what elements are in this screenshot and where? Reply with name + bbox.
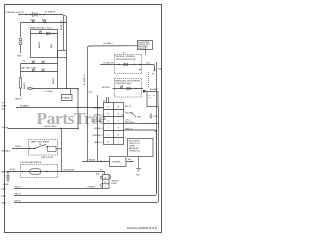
connector table [104,103,124,145]
wire A+BA(M) [16,107,104,109]
svg-text:GRN14: GRN14 [15,146,21,148]
wire bus right drop [77,89,79,129]
ground lug left [6,172,9,182]
svg-text:+GRN(M)+1: +GRN(M)+1 [93,107,103,109]
wire left drop lower [20,45,22,53]
svg-text:BLK14: BLK14 [10,169,15,171]
svg-text:A: A [105,176,107,179]
diode D4 [127,87,131,90]
plug cells [103,179,110,184]
node LT [60,128,61,129]
wire light switch row [113,88,144,90]
ground sym right [149,113,152,118]
box trailer [62,95,73,101]
wire fuse left [82,161,110,163]
node switch right [46,146,47,147]
ground G2 [136,157,141,172]
svg-text:CONNECTED: CONNECTED [129,151,140,153]
wire drop to trailer [70,89,72,95]
svg-text:GND(A)◄: GND(A)◄ [2,150,11,153]
svg-text:A: A [118,105,120,108]
wire into switch [12,148,35,150]
svg-text:S-NOTE 2: S-NOTE 2 [138,48,145,50]
svg-text:L: L [108,134,110,136]
svg-text:HEADLIGHT TAIL + PILOT: HEADLIGHT TAIL + PILOT [31,26,53,29]
svg-text:GRN14 GRN14: GRN14 GRN14 [44,126,56,128]
node bus bottom [66,88,67,89]
wire switch out [56,148,62,150]
svg-text:BLACK: BLACK [38,41,41,48]
svg-text:P4: P4 [152,74,154,76]
svg-text:BLK/WHT: BLK/WHT [150,89,159,91]
svg-text:SAFETY SW + BRAKE: SAFETY SW + BRAKE [31,141,50,144]
node r2 [46,171,47,172]
wire line2 [14,130,157,196]
svg-text:B+ WIRE 10: B+ WIRE 10 [84,75,86,85]
node ig4 [139,69,140,70]
svg-text:(M)◄: (M)◄ [2,202,7,205]
wire W1b parallel [64,15,66,50]
wire line3 [14,107,159,203]
svg-text:+YEL/BLK+: +YEL/BLK+ [87,186,96,188]
P4 module dashes [149,96,155,98]
svg-text:B WIRING ◄ PL B+: B WIRING ◄ PL B+ [6,11,25,14]
svg-text:C: C [118,120,120,122]
svg-text:F: F [108,106,110,108]
connector end symbol [28,87,32,90]
svg-text:BLK 10: BLK 10 [125,106,131,108]
svg-text:R.BAT(M)+1: R.BAT(M)+1 [93,120,103,123]
arrow left [16,107,18,109]
svg-text:B+PWR+TB: B+PWR+TB [104,62,115,64]
big rect R2 left and top [88,46,138,162]
svg-text:G: G [118,127,120,129]
lamp L7 [41,68,44,72]
wire LT row [8,128,79,130]
node bus cross [77,88,78,89]
svg-text:GRN 14+: GRN 14+ [125,128,133,130]
svg-text:LT(M)◄: LT(M)◄ [2,126,9,129]
svg-text:BLK: BLK [128,159,132,161]
svg-text:(M)◄: (M)◄ [2,195,7,198]
arrow into P4 box [143,90,147,93]
svg-text:P5: P5 [2,103,4,105]
box note lower [128,139,154,157]
svg-text:B-LT: B-LT [2,109,7,111]
wire stub B+ to box [145,46,147,55]
wire line1 [14,188,103,190]
svg-text:A HYDROSTAT: A HYDROSTAT [138,41,149,44]
svg-text:(M)◄: (M)◄ [2,188,7,191]
svg-text:P2: P2 [123,52,125,54]
node after D1 [39,14,40,15]
wire right vertical [156,62,158,193]
box safety switch dashed [29,140,58,156]
svg-text:™: ™ [121,114,125,118]
wire drop from LT row [61,129,63,172]
svg-text:A.BAT: A.BAT [2,105,8,108]
lamp L6 [32,68,35,72]
svg-text:BLACK: BLACK [23,82,26,89]
svg-text:IGNITION MODULE(S): IGNITION MODULE(S) [116,59,136,61]
lamp L5 [41,60,44,64]
svg-text:H: H [118,134,120,136]
svg-text:P+ PL(M) 1: P+ PL(M) 1 [44,91,53,93]
svg-text:TRACTOR SW: TRACTOR SW [41,156,53,159]
wire below resistor [20,88,22,97]
svg-text:B+ WIRE +: B+ WIRE + [104,43,114,45]
svg-text:E: E [108,113,110,115]
fuse inner [31,171,40,173]
svg-text:WHT/BLK: WHT/BLK [102,87,111,89]
svg-text:GROUND(M): GROUND(M) [63,169,75,171]
svg-text:T.AT P.AT SEAT SWITCH: T.AT P.AT SEAT SWITCH [20,161,42,164]
wire horizontal mid [32,88,78,90]
wire taillight row1 [21,63,58,65]
wire row4 to right [124,123,139,125]
svg-text:J: J [118,141,119,143]
svg-text:TB: TB [39,144,41,146]
plug left tabs [101,176,103,186]
svg-text:I: I [108,127,109,129]
svg-text:B: B [118,113,120,115]
wire headlight row [21,22,67,24]
svg-text:PNK 14: PNK 14 [15,186,21,188]
svg-text:A2: A2 [42,19,44,22]
connector backup plug [103,175,110,189]
page border [5,5,162,233]
lamp switch circle [120,85,123,89]
svg-text:LT.REG(M)+1: LT.REG(M)+1 [92,135,103,137]
svg-text:+BLK(M)+1: +BLK(M)+1 [94,114,103,116]
node fuse left [100,161,101,162]
bus vertical left [57,58,59,89]
wire W1 top feed [19,15,64,51]
wire row5 to right [124,130,156,132]
svg-text:GND(A): GND(A) [89,159,96,162]
connector P3 circles [19,38,22,41]
node ls [135,88,136,89]
lamp L2 [43,19,46,23]
box small right [58,51,67,58]
node on W1 [18,13,20,15]
node ig3 [139,64,140,65]
box fuse [110,157,127,167]
wire connector drop [104,172,106,175]
switch blade [35,144,47,148]
node in box [53,33,54,34]
svg-text:TRAILER: TRAILER [62,97,70,100]
table divider vertical [113,103,115,145]
box ignition dashed [115,55,142,74]
wire fuse right [126,161,134,163]
entry arrow seat [14,171,17,173]
svg-text:PNK 14: PNK 14 [15,193,21,195]
vertical table feeds [107,97,109,103]
diode D3 [124,63,128,66]
wire left drop [20,23,22,38]
svg-text:FUSE/RE: FUSE/RE [112,162,121,164]
svg-text:D: D [108,120,110,122]
lamp L3 [39,30,42,34]
wire inside headlight box [31,33,58,35]
fuse F1 [30,169,42,174]
svg-text:LIGHT: LIGHT [112,183,118,185]
box note top [138,41,153,50]
svg-text:+BLK(M)+1: +BLK(M)+1 [94,128,103,130]
box headlight [31,30,58,58]
box P4 module [147,92,158,107]
svg-text:AMP(B)◄: AMP(B)◄ [2,171,11,174]
svg-text:P6: P6 [23,61,25,63]
svg-text:GRN: GRN [154,116,159,118]
vertical bus x97 [97,95,99,162]
svg-text:GND(M): GND(M) [3,184,10,186]
resistor R1 [19,78,21,88]
node fuse right [130,161,131,162]
svg-text:BLK: BLK [96,174,100,176]
table row lines [104,110,124,138]
wire taillight row2 [21,71,58,73]
svg-text:AMMETER: AMMETER [60,20,63,30]
svg-text:P5: P5 [100,170,102,172]
svg-text:ALT+: ALT+ [89,91,93,94]
svg-text:A+BA(M) 1: A+BA(M) 1 [20,104,29,107]
svg-text:HEADLIGHT+HOUR METER: HEADLIGHT+HOUR METER [115,79,140,82]
arrow down P4 [154,70,156,72]
svg-text:K: K [108,141,110,143]
svg-text:B+ KABLIN: B+ KABLIN [45,11,56,14]
svg-text:BLACK: BLACK [52,77,55,84]
svg-text:RED: RED [51,43,53,48]
node arrow [43,14,44,15]
entry arrow [29,148,32,150]
switch coil box [48,146,57,151]
node ig2 [133,64,134,65]
svg-text:GRN: GRN [17,56,22,58]
node switch [34,148,35,149]
diode D2 [47,32,51,35]
svg-text:GRN: GRN [137,117,142,119]
box resistor dashed [21,165,58,178]
wire resistor row [7,171,105,173]
diode D1 [33,12,37,16]
lamp L4 [32,60,35,64]
svg-text:LIGHT SWITCH(S): LIGHT SWITCH(S) [115,83,131,85]
node r1 [22,171,23,172]
svg-text:TB+1: TB+1 [146,63,150,65]
node bus lt [77,128,78,129]
curved drop arrow [131,114,136,118]
bus vertical right [66,58,68,89]
svg-text:RED/WHT+1: RED/WHT+1 [125,122,135,124]
svg-text:AMP(+)+1: AMP(+)+1 [95,141,103,144]
wire ignition row [100,65,155,70]
svg-text:PartsTree 00/00/00 (0 of 2): PartsTree 00/00/00 (0 of 2) [127,227,157,230]
svg-text:MODELS ONLY: MODELS ONLY [138,44,150,46]
node ig1 [118,64,119,65]
svg-text:GRN 14: GRN 14 [15,99,22,101]
svg-text:GND: GND [136,175,141,177]
box light switch dashed [115,79,142,98]
lamp L1 [32,19,35,23]
plug tab [109,176,111,179]
svg-text:A1: A1 [31,19,33,22]
dashed stub vertical [148,72,150,88]
wire joining rows [20,64,22,79]
